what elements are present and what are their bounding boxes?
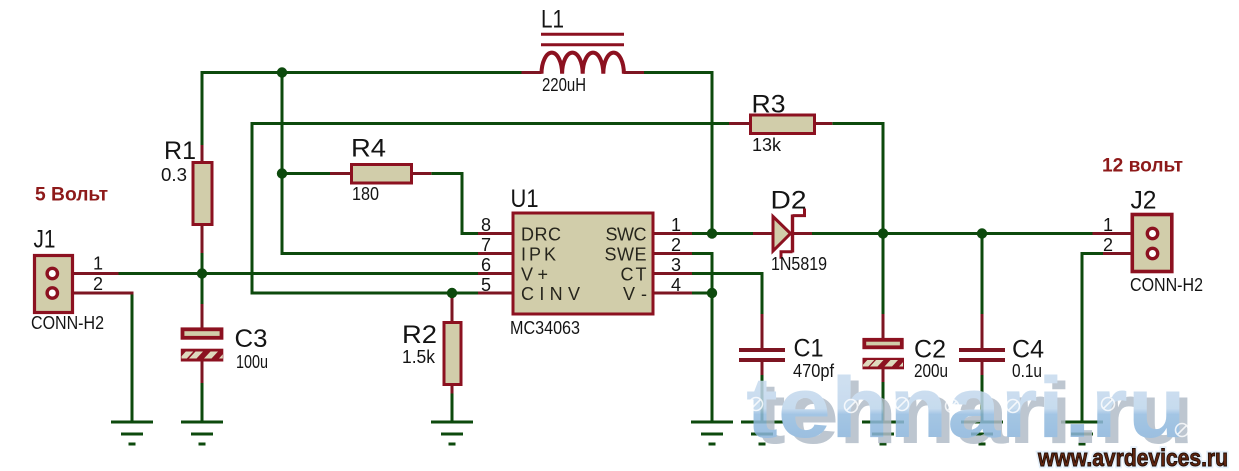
capacitor C4	[959, 350, 1005, 360]
wire: C1 top vertical	[761, 272, 764, 315]
svg-text:2: 2	[93, 274, 103, 294]
svg-text:SWE: SWE	[605, 245, 647, 265]
pin: U1 left pin 5 stub	[478, 292, 513, 295]
wire: DRC pin-8 wire	[461, 232, 479, 235]
svg-text:J2: J2	[1131, 187, 1157, 215]
wire: R1 bottom to C3 vertical	[201, 252, 204, 305]
wire: vertical x883 R3 to C2 top	[882, 122, 885, 315]
pin: L1 left pin	[522, 71, 542, 74]
ground (J2 pin2)	[1061, 422, 1103, 444]
pin: J1 pin2 stub	[73, 292, 134, 295]
watermark tehnari.ru	[746, 360, 1194, 462]
pin: D2 cathode pin	[793, 232, 812, 235]
svg-text:J1: J1	[34, 226, 56, 254]
svg-text:12 вольт: 12 вольт	[1102, 156, 1183, 177]
ground (C4)	[961, 422, 1003, 444]
pin: U1 right pin 1 stub	[653, 232, 692, 235]
wire: feedback horizontal y123 to R3 left	[251, 122, 730, 125]
pin: R1 top pin	[201, 145, 204, 163]
ground (C3)	[181, 422, 223, 444]
pin: R2 top pin	[451, 292, 454, 323]
pin: U1 right pin 3 stub	[653, 272, 692, 275]
wire: J1 pin2 vertical to ground	[131, 292, 134, 422]
pin numbers J2	[1103, 215, 1113, 255]
pin: U1 right pin 4 stub	[653, 292, 692, 295]
wire: output rail y233 to J2 pin1	[882, 232, 1093, 235]
svg-text:7: 7	[481, 235, 491, 255]
wire: vertical x282 top rail to IPK row	[281, 71, 284, 255]
ground (R2)	[431, 422, 473, 444]
svg-text:C1: C1	[794, 335, 824, 363]
ground (C2)	[862, 422, 904, 444]
pin: C4 top pin	[981, 314, 984, 349]
pin: C2 bottom pin	[882, 367, 885, 382]
wire: R4 left wire	[281, 172, 331, 175]
svg-text:CONN-H2: CONN-H2	[1130, 275, 1203, 295]
pin: C4 bottom pin	[981, 361, 984, 375]
pin names U1	[521, 225, 647, 305]
pin: R3 left pin	[729, 122, 751, 125]
pin numbers U1 left	[481, 215, 491, 295]
svg-text:13k: 13k	[752, 135, 782, 155]
connector J2 body	[1132, 215, 1172, 272]
junction: x282 / R4 left	[277, 168, 287, 178]
wire: IPK pin-7 row	[281, 252, 479, 255]
pin: D2 anode pin	[753, 232, 773, 235]
wire: J2 pin2 vertical to ground	[1081, 252, 1084, 422]
svg-text:0.3: 0.3	[161, 165, 187, 185]
wire: D2 cathode to output node	[812, 232, 885, 235]
ground (J1 pin2)	[111, 422, 153, 444]
pin: J2 pin1 stub	[1093, 232, 1133, 235]
svg-text:4: 4	[671, 275, 681, 295]
pin: R4 right pin	[411, 172, 431, 175]
pin: R1 bottom pin	[201, 224, 204, 253]
wire: top rail L1 right to x712 corner	[644, 71, 714, 74]
svg-text:220uH: 220uH	[542, 75, 586, 95]
svg-text:180: 180	[352, 184, 379, 204]
svg-text:1: 1	[93, 254, 103, 274]
resistor R1 body	[193, 163, 212, 225]
pin: R4 left pin	[330, 172, 352, 175]
wire: V+ rail J1 pin1 to U1 pin6	[119, 272, 479, 275]
junction: output node / C4	[977, 228, 987, 238]
svg-text:www.avrdevices.ru: www.avrdevices.ru	[1037, 445, 1228, 471]
svg-text:MC34063: MC34063	[510, 318, 580, 338]
pin: C2 top pin	[882, 314, 885, 339]
svg-text:2: 2	[1103, 235, 1113, 255]
pin: U1 left pin 7 stub	[478, 252, 513, 255]
svg-text:D2: D2	[771, 187, 807, 215]
wire: J2 pin2 wire to x1082 corner	[1081, 252, 1104, 255]
wire: CINV row	[251, 292, 479, 295]
wire: R4 right wire to x462 corner	[431, 172, 463, 175]
ground (C1)	[741, 422, 783, 444]
wire: R3 right to x883 corner	[832, 122, 884, 125]
inductor L1	[541, 34, 624, 74]
junction: top rail / x282	[277, 67, 287, 77]
svg-text:6: 6	[481, 255, 491, 275]
pin: U1 left pin 8 stub	[478, 232, 513, 235]
watermark no-copy marks	[750, 398, 1189, 437]
pin: J1 pin1 stub	[73, 272, 119, 275]
svg-text:8: 8	[481, 215, 491, 235]
watermark www.avrdevices.ru	[1037, 445, 1228, 471]
svg-text:R2: R2	[402, 321, 437, 349]
capacitor C3 (electrolytic)	[181, 329, 224, 361]
wire: +5V top rail (R1 corner to L1 left)	[202, 71, 522, 74]
resistor R4 body	[352, 165, 412, 184]
pin: C3 bottom pin	[201, 360, 204, 383]
svg-text:1N5819: 1N5819	[771, 254, 827, 274]
junction: V+ rail / R1-C3	[197, 268, 207, 278]
wire: V- pin wire to x712 node	[692, 292, 712, 295]
ground (U1 V-)	[691, 422, 733, 444]
pin numbers U1 right	[671, 215, 681, 295]
diode D2 (schottky 1N5819)	[773, 209, 805, 259]
wire: SWC row to D2 anode	[692, 232, 753, 235]
wire: vertical x712 L1 output down to D2 node	[711, 71, 714, 235]
pin: C1 top pin	[761, 314, 764, 349]
pin: L1 right pin	[624, 71, 645, 74]
pin: C3 top pin	[201, 304, 204, 328]
svg-text:1: 1	[1103, 215, 1113, 235]
wire: C4 top vertical	[981, 232, 984, 315]
svg-text:L1: L1	[541, 6, 564, 34]
svg-text:5: 5	[481, 275, 491, 295]
pin: U1 left pin 6 stub	[478, 272, 513, 275]
svg-text:3: 3	[671, 255, 681, 275]
wire: C2 bottom to ground	[882, 381, 885, 422]
svg-text:R1: R1	[164, 137, 196, 165]
svg-text:U1: U1	[511, 185, 539, 213]
pin: R3 right pin	[814, 122, 833, 125]
junction: SWC / L1 / D2 anode node	[707, 228, 717, 238]
svg-text:R4: R4	[351, 135, 386, 163]
svg-text:CONN-H2: CONN-H2	[31, 313, 104, 333]
wire: vertical x462 R4 to DRC row	[461, 172, 464, 235]
svg-text:SWC: SWC	[606, 225, 647, 245]
wire: SWE pin wire to x712 corner	[692, 252, 714, 255]
svg-text:100u: 100u	[236, 352, 268, 372]
junction: output node / C2	[878, 228, 888, 238]
pin: U1 right pin 2 stub	[653, 252, 692, 255]
capacitor C1	[739, 350, 785, 360]
svg-text:tehnari.ru: tehnari.ru	[746, 360, 1186, 456]
wire: C4 bottom to ground	[981, 374, 984, 422]
wire: CT row to C1 column	[692, 272, 764, 275]
pin: R2 bottom pin	[451, 384, 454, 394]
wire: feedback vertical x252	[251, 122, 254, 295]
wire: R1 top vertical	[201, 71, 204, 146]
svg-text:1.5k: 1.5k	[402, 347, 436, 367]
resistor R3 body	[751, 115, 815, 134]
svg-text:R3: R3	[752, 91, 786, 119]
svg-text:5 Вольт: 5 Вольт	[35, 185, 108, 206]
resistor R2 body	[444, 323, 461, 385]
pin numbers J1	[93, 254, 103, 295]
capacitor C2 (electrolytic)	[863, 340, 905, 370]
wire: R2 bottom to ground	[451, 393, 454, 422]
wire: C3 bottom to ground	[201, 382, 204, 422]
junction: V- / x712 vertical	[707, 288, 717, 298]
connector J1 body	[35, 256, 73, 313]
wire: C1 bottom to ground	[761, 374, 764, 422]
svg-text:2: 2	[671, 235, 681, 255]
svg-text:1: 1	[671, 215, 681, 235]
pin: C1 bottom pin	[761, 361, 764, 375]
op-amp U1 MC34063 body	[513, 213, 653, 314]
svg-text:CINV: CINV	[521, 284, 580, 304]
svg-text:DRC: DRC	[521, 225, 561, 245]
wire: vertical x712 SWE/V- to ground	[711, 252, 714, 422]
junction: CINV / R2 top	[447, 288, 457, 298]
pin: J2 pin2 stub	[1103, 252, 1132, 255]
svg-text:C3: C3	[235, 325, 268, 353]
